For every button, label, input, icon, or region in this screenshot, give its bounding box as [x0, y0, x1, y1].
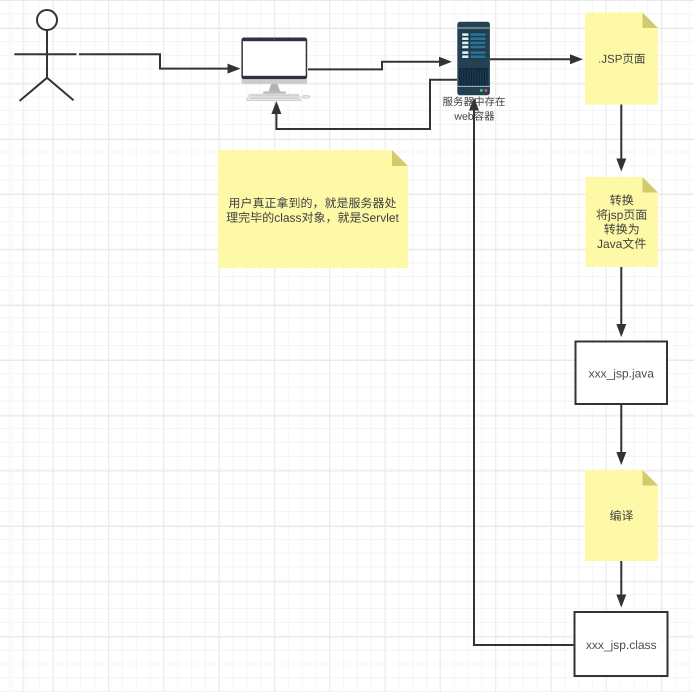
wire .JSP note down to convert note	[620, 105, 622, 159]
note .JSP page	[585, 13, 658, 105]
actor (stick figure user)	[14, 10, 76, 101]
label xxx_jsp.java	[589, 369, 654, 380]
label 转换/将jsp页面/转换为/Java文件	[610, 194, 633, 205]
label xxx_jsp.class	[586, 640, 656, 651]
server tower (web container)	[457, 22, 490, 95]
label 编译	[610, 510, 633, 521]
wire java box to compile note	[620, 404, 622, 452]
note annotation (user gets compiled class / Servlet)	[218, 150, 408, 268]
computer workstation (monitor, stand, keyboard, mouse)	[241, 38, 310, 101]
wire monitor to server	[308, 62, 440, 70]
label .JSP页面	[599, 54, 645, 64]
wire server back to monitor (response)	[276, 80, 457, 129]
wire compile note to xxx_jsp.class box	[620, 561, 622, 595]
note compile	[585, 470, 658, 561]
wire convert note to xxx_jsp.java box	[620, 267, 622, 324]
label annotation text	[229, 197, 396, 209]
box xxx_jsp.class	[575, 612, 668, 676]
note convert jsp to java	[586, 177, 659, 267]
wire actor to monitor	[79, 54, 228, 68]
wire server to .JSP page note	[490, 58, 571, 60]
box xxx_jsp.java	[576, 342, 668, 405]
label server caption 服务器中存在 web容器	[443, 97, 505, 107]
wire xxx_jsp.class back up to server	[474, 110, 574, 645]
